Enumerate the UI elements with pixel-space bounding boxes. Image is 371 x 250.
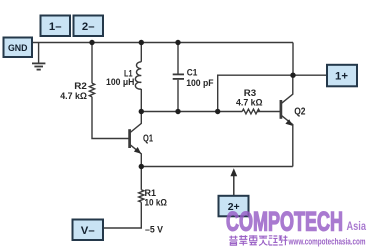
ground [32,63,45,69]
resistor R3 [242,109,260,114]
wire L1 branch lower [140,89,142,112]
junction at bottom of C1 [175,109,180,114]
junction at top of L1 [139,40,144,45]
resistor R2 [89,83,94,97]
junction at top of R2 branch [89,40,94,45]
svg-text:–5 V: –5 V [145,225,164,235]
junction at Q1 emitter / R1 [139,164,144,169]
svg-text:V–: V– [81,225,95,237]
wire right vertical drop to 1+ node [292,43,294,76]
wire L1 branch upper [140,43,142,62]
svg-text:4.7 kΩ: 4.7 kΩ [236,98,263,108]
resistor R1 [139,190,144,202]
svg-text:100 μH: 100 μH [106,77,135,87]
wire emitter return bus [141,166,292,168]
junction at top of C1 [175,40,180,45]
wire R2 branch upper [91,43,93,84]
svg-text:Asia: Asia [347,221,367,233]
svg-text:Q1: Q1 [143,133,153,144]
svg-text:4.7 kΩ: 4.7 kΩ [60,91,87,101]
wire R1 upper [140,167,142,190]
wire feedback riser to 1+ node [218,75,293,111]
watermark COMPOTECH [226,207,366,237]
wire R3 to Q2 base [257,111,280,113]
svg-text:1–: 1– [49,21,62,33]
arrow from 2+ terminal to emitter bus [230,168,237,195]
terminal box 1- [41,16,71,37]
svg-text:10 kΩ: 10 kΩ [145,197,168,207]
inductor L1 [135,62,141,89]
svg-text:2–: 2– [82,21,95,33]
terminal box GND [4,38,33,58]
svg-text:GND: GND [8,43,28,53]
junction at bottom of L1 / Q1 collector [139,109,144,114]
wire R1 lower to V- terminal [104,202,142,228]
wire top bus from GND to right corner [32,42,293,44]
svg-text:R3: R3 [244,88,256,98]
svg-text:100 pF: 100 pF [186,78,214,88]
wire lower bus Q1 collector to R3 [141,111,242,113]
terminal box 2+ [219,196,249,217]
svg-text:Q2: Q2 [294,106,305,117]
capacitor C1 [173,74,184,79]
terminal box V- [73,220,104,241]
wire C1 branch lower [177,80,179,112]
svg-text:www.compotechasia.com: www.compotechasia.com [288,236,366,247]
terminal box 2- [74,16,104,37]
transistor Q2 [281,75,293,166]
svg-text:R2: R2 [74,81,87,91]
svg-text:COMPOTECH: COMPOTECH [226,207,343,237]
wire R2 branch lower to Q1 base [92,97,129,139]
svg-text:1+: 1+ [335,71,348,83]
junction at 1+ node [290,73,295,78]
terminal box 1+ [327,65,357,87]
transistor Q1 [130,112,142,167]
wire ground stub [38,43,40,63]
junction at feedback riser [215,109,220,114]
wire C1 branch upper [177,43,179,74]
svg-text:C1: C1 [187,67,198,77]
watermark CJK tagline glyphs [229,235,287,245]
wire node to 1+ terminal [293,74,327,76]
